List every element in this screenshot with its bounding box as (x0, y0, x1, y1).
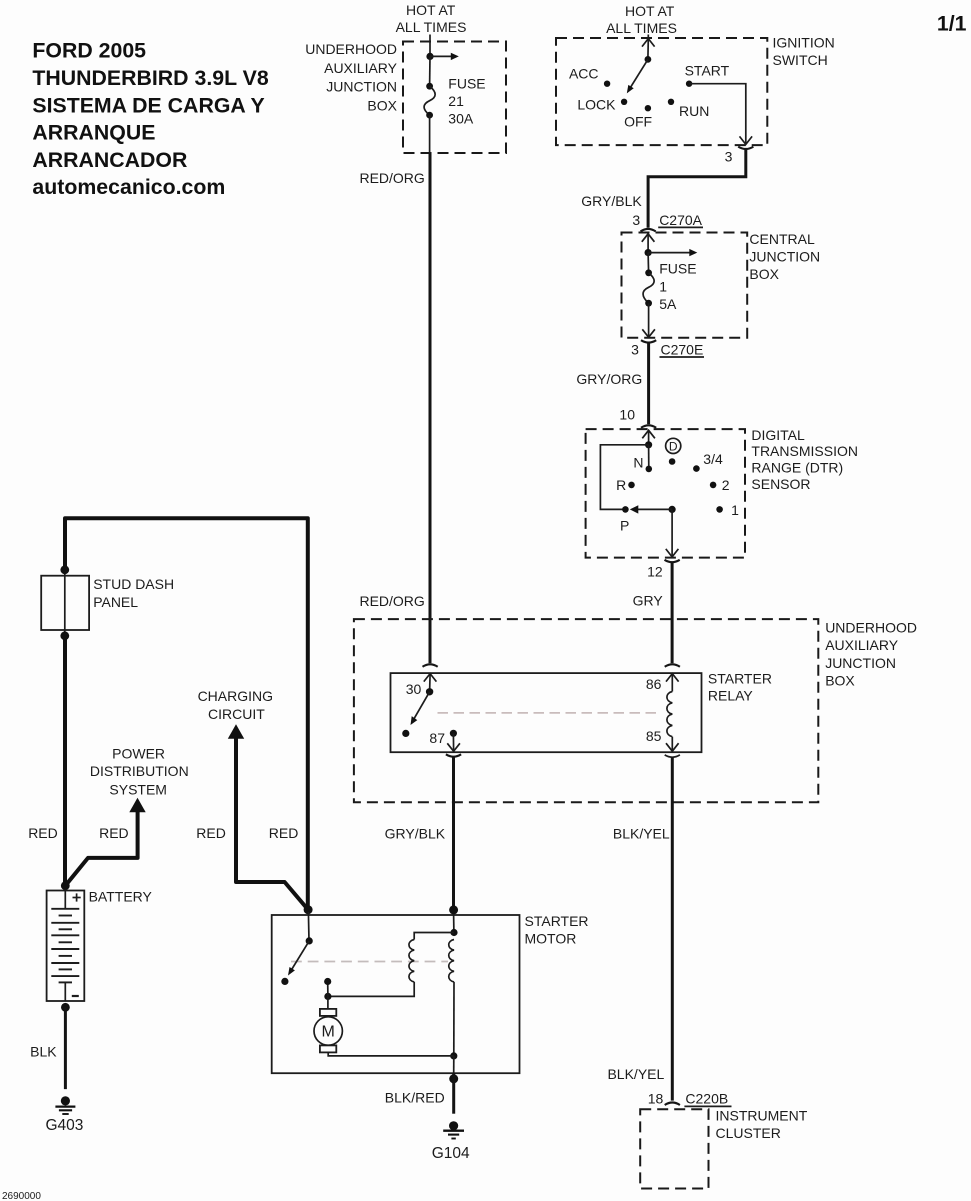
svg-text:MOTOR: MOTOR (525, 930, 577, 946)
svg-text:TRANSMISSION: TRANSMISSION (751, 443, 858, 459)
svg-text:2: 2 (722, 477, 730, 493)
svg-text:N: N (633, 455, 643, 471)
svg-text:ARRANCADOR: ARRANCADOR (32, 148, 187, 172)
svg-text:10: 10 (619, 406, 635, 422)
svg-text:R: R (616, 477, 626, 493)
svg-text:STARTER: STARTER (525, 913, 589, 929)
svg-text:STUD DASH: STUD DASH (93, 576, 174, 592)
svg-text:SENSOR: SENSOR (751, 476, 810, 492)
svg-text:FUSE: FUSE (659, 261, 696, 277)
svg-text:UNDERHOOD: UNDERHOOD (305, 41, 397, 57)
svg-text:3: 3 (725, 148, 733, 164)
svg-text:HOT AT: HOT AT (625, 3, 675, 19)
svg-text:87: 87 (429, 730, 445, 746)
svg-text:RUN: RUN (679, 103, 709, 119)
svg-text:RED: RED (269, 825, 299, 841)
svg-text:18: 18 (648, 1090, 664, 1106)
svg-text:C270A: C270A (659, 212, 702, 228)
svg-text:IGNITION: IGNITION (773, 35, 835, 51)
svg-text:G403: G403 (45, 1117, 83, 1134)
svg-text:GRY/ORG: GRY/ORG (576, 371, 642, 387)
svg-text:D: D (669, 439, 678, 453)
svg-text:RED: RED (28, 825, 58, 841)
svg-text:START: START (685, 62, 730, 78)
svg-text:GRY/BLK: GRY/BLK (385, 826, 446, 842)
svg-text:FORD 2005: FORD 2005 (32, 39, 146, 63)
svg-text:JUNCTION: JUNCTION (326, 78, 397, 94)
svg-text:86: 86 (646, 676, 662, 692)
svg-text:AUXILIARY: AUXILIARY (825, 637, 899, 653)
svg-text:CHARGING: CHARGING (198, 688, 273, 704)
svg-text:BLK/YEL: BLK/YEL (613, 826, 670, 842)
svg-text:PANEL: PANEL (93, 594, 138, 610)
svg-text:3: 3 (631, 342, 639, 358)
svg-text:RELAY: RELAY (708, 688, 754, 704)
svg-text:ALL TIMES: ALL TIMES (396, 19, 467, 35)
svg-text:POWER: POWER (112, 746, 165, 762)
svg-text:1/1: 1/1 (937, 12, 967, 36)
svg-text:SYSTEM: SYSTEM (109, 781, 167, 797)
svg-text:FUSE: FUSE (448, 75, 485, 91)
svg-text:INSTRUMENT: INSTRUMENT (716, 1107, 808, 1123)
svg-text:SWITCH: SWITCH (773, 52, 828, 68)
svg-text:30A: 30A (448, 110, 474, 126)
svg-text:GRY: GRY (633, 592, 664, 608)
svg-text:5A: 5A (659, 296, 677, 312)
svg-text:12: 12 (647, 563, 663, 579)
svg-text:BLK/RED: BLK/RED (385, 1089, 445, 1105)
svg-text:RED: RED (196, 825, 226, 841)
svg-text:1: 1 (731, 502, 739, 518)
svg-text:automecanico.com: automecanico.com (32, 175, 225, 199)
svg-text:1: 1 (659, 278, 667, 294)
svg-text:AUXILIARY: AUXILIARY (324, 60, 398, 76)
svg-text:STARTER: STARTER (708, 670, 772, 686)
svg-text:DISTRIBUTION: DISTRIBUTION (90, 763, 189, 779)
svg-text:G104: G104 (432, 1145, 470, 1162)
svg-text:RED/ORG: RED/ORG (359, 593, 424, 609)
svg-text:3/4: 3/4 (703, 451, 723, 467)
svg-text:BLK/YEL: BLK/YEL (607, 1066, 664, 1082)
svg-text:ACC: ACC (569, 66, 599, 82)
svg-text:C270E: C270E (661, 342, 704, 358)
svg-text:GRY/BLK: GRY/BLK (581, 193, 642, 209)
svg-text:3: 3 (632, 212, 640, 228)
svg-text:BATTERY: BATTERY (89, 889, 153, 905)
svg-text:ARRANQUE: ARRANQUE (32, 121, 155, 145)
svg-text:BOX: BOX (825, 673, 855, 689)
svg-text:CLUSTER: CLUSTER (716, 1125, 781, 1141)
svg-text:RED: RED (99, 825, 129, 841)
svg-text:HOT AT: HOT AT (406, 2, 456, 18)
svg-text:30: 30 (406, 681, 422, 697)
svg-text:JUNCTION: JUNCTION (825, 655, 896, 671)
svg-text:85: 85 (646, 728, 662, 744)
svg-text:ALL TIMES: ALL TIMES (606, 20, 677, 36)
svg-text:P: P (620, 518, 629, 534)
svg-text:BLK: BLK (30, 1043, 57, 1059)
svg-text:M: M (322, 1024, 335, 1041)
svg-text:JUNCTION: JUNCTION (749, 248, 820, 264)
svg-text:BOX: BOX (749, 266, 779, 282)
svg-text:RANGE (DTR): RANGE (DTR) (751, 460, 843, 476)
svg-text:CIRCUIT: CIRCUIT (208, 706, 265, 722)
svg-text:21: 21 (448, 93, 464, 109)
svg-text:UNDERHOOD: UNDERHOOD (825, 620, 917, 636)
svg-text:C220B: C220B (685, 1091, 728, 1107)
svg-text:SISTEMA DE CARGA Y: SISTEMA DE CARGA Y (32, 93, 264, 117)
svg-text:THUNDERBIRD 3.9L V8: THUNDERBIRD 3.9L V8 (32, 66, 268, 90)
svg-text:2690000: 2690000 (2, 1191, 41, 1201)
svg-text:OFF: OFF (624, 113, 652, 129)
svg-text:RED/ORG: RED/ORG (359, 170, 424, 186)
svg-text:BOX: BOX (367, 97, 397, 113)
svg-text:DIGITAL: DIGITAL (751, 427, 805, 443)
svg-text:LOCK: LOCK (577, 96, 616, 112)
svg-text:CENTRAL: CENTRAL (749, 231, 815, 247)
